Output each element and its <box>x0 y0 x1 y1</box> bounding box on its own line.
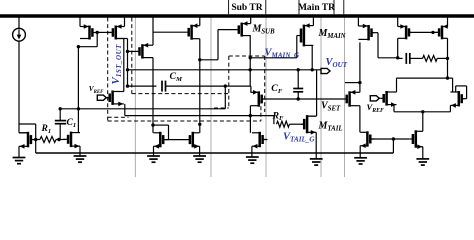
node M15-M16 gate tie junction <box>431 31 434 34</box>
node C1 bus riser junction <box>224 84 227 87</box>
wire (pair common source bus) <box>394 111 450 113</box>
node dashed box second-stage bottom edge <box>132 93 229 95</box>
wire (M18 source down) <box>449 105 451 111</box>
node V1ST_OUT tap 3 <box>126 84 129 87</box>
transistor M18 <box>450 91 463 108</box>
wire (MSUB drain leg down) <box>249 36 251 87</box>
wire (M15-M16 gate tie) <box>409 31 440 33</box>
capacitor C1 <box>55 121 66 124</box>
wire (M5 source bus to RF) <box>125 115 274 117</box>
wire (M1 drain lead) <box>19 132 28 134</box>
wire (P1 source from rail) <box>79 18 81 27</box>
node pair top junction <box>446 76 449 79</box>
transistor MTAIL <box>301 115 316 135</box>
node tail junction <box>421 110 424 113</box>
wire (C1 node bus) <box>60 86 225 109</box>
node M1 gate junction <box>34 138 37 141</box>
ground (M19 source) <box>416 159 429 165</box>
wire (CF bottom riser) <box>297 92 299 99</box>
wire (R1 to M2 gate) <box>56 139 65 141</box>
ground (M8 source) <box>147 156 160 162</box>
wire (M9 source down) <box>199 146 201 156</box>
wire (M1 gate to R1) <box>34 139 40 141</box>
node P1 P2 gate node <box>96 31 99 34</box>
node dashed box tail-bias left edge <box>228 56 230 108</box>
resistor R1 <box>40 137 56 143</box>
node dashed box first-stage left edge <box>107 18 109 122</box>
transistor P4 <box>137 43 154 59</box>
node M14 gate junction <box>392 137 395 140</box>
capacitor C4 (compensation) <box>406 53 410 64</box>
node dashed box tail-bias bottom stub <box>214 107 229 109</box>
svg-text:MMAIN: MMAIN <box>318 28 347 40</box>
wire (block separator line) <box>344 18 346 178</box>
capacitor CF <box>293 89 303 92</box>
transistor MMAIN <box>301 23 314 46</box>
wire (current source to M1 drain) <box>18 41 20 133</box>
wire (RF drop) <box>273 116 275 125</box>
node mirror left drain junction <box>151 123 154 126</box>
node RF left junction <box>249 114 252 117</box>
wire (M12 source stub left) <box>345 82 360 84</box>
wire (P3 gate line) <box>153 31 189 33</box>
wire (tail drain riser) <box>422 112 424 132</box>
wire (V1ST_OUT to VOUT bus) <box>128 69 322 71</box>
wire (MMAIN source from rail) <box>312 18 314 26</box>
transistor M13 <box>358 24 374 41</box>
wire (M2 drain riser to P1 drain) <box>77 47 79 133</box>
wire (M15 drain down) <box>397 38 399 58</box>
transistor M1 <box>19 132 36 149</box>
node dashed box tail-bias top edge <box>229 55 265 57</box>
transistor M15 <box>398 24 411 39</box>
node VREF input port right <box>370 96 379 101</box>
svg-text:VMAIN_G: VMAIN_G <box>265 48 300 60</box>
wire (P1-P2 gate tie) <box>97 31 113 33</box>
wire (M16 source from rail) <box>447 18 449 27</box>
resistor RF <box>277 121 290 127</box>
wire (M1 source down) <box>18 146 20 157</box>
wire (P2 drain to V1ST_OUT riser) <box>116 39 128 87</box>
ground (M1 source) <box>13 158 26 164</box>
wire (M11 source down) <box>251 146 253 157</box>
node dashed box tail-bias right edge <box>264 56 266 112</box>
wire (M17 drain riser) <box>396 78 398 92</box>
wire (P4 drain leg down) <box>152 58 154 133</box>
svg-text:Sub TR: Sub TR <box>231 3 262 13</box>
node C1 top junction <box>59 107 62 110</box>
transistor M10 <box>250 90 264 107</box>
node Main TR label box <box>299 0 344 14</box>
transistor M8 <box>154 132 169 149</box>
wire (P3 source from rail) <box>199 18 201 26</box>
wire (P1 diode connect) <box>78 32 97 46</box>
svg-text:VREF: VREF <box>367 102 384 114</box>
wire (M5 drain riser) <box>123 39 125 92</box>
svg-text:VTAIL_G: VTAIL_G <box>283 132 315 144</box>
capacitor CM <box>162 81 166 92</box>
wire (bias riser to bus) <box>35 140 37 154</box>
node Sub TR label box <box>229 0 266 14</box>
transistor M14 <box>360 131 374 148</box>
svg-text:Main TR: Main TR <box>298 3 335 13</box>
node M15 drain junction <box>396 56 399 59</box>
wire (MMAIN gate riser) <box>297 36 301 58</box>
svg-text:RF: RF <box>272 110 285 122</box>
wire (M10 drain down) <box>249 106 251 133</box>
wire (M10 gate / VSET bus) <box>261 98 346 100</box>
wire (M13 source from rail) <box>357 18 359 27</box>
transistor M12 <box>347 90 360 107</box>
svg-text:R1: R1 <box>41 124 52 135</box>
wire (M13 gate riser) <box>372 33 379 58</box>
node V1ST_OUT tap 1 <box>126 50 129 53</box>
node MSUB drain tap VMAIN_G <box>249 56 252 59</box>
wire (block separator line) <box>210 18 212 178</box>
node M12 source junction <box>358 81 361 84</box>
wire (M8 source down) <box>153 146 155 156</box>
node CF bottom junction <box>297 97 300 100</box>
node dashed box bottom edge y121 <box>108 120 261 122</box>
wire (VOUT to MTAIL drain) <box>307 70 317 116</box>
transistor P1 <box>80 24 97 39</box>
svg-text:VREF: VREF <box>89 85 104 95</box>
svg-text:MTAIL: MTAIL <box>318 121 343 133</box>
node M2 drain / C1 bus junction <box>77 107 80 110</box>
wire (C1 bottom riser) <box>59 124 61 140</box>
node dashed box second-stage left edge <box>131 18 133 94</box>
wire (M11 gate stub) <box>263 139 268 141</box>
node CF top junction <box>297 68 300 71</box>
transistor P2 <box>108 24 124 39</box>
resistor R3 (compensation) <box>423 55 438 61</box>
node M9 drain tap <box>198 123 201 126</box>
svg-text:VSET: VSET <box>321 101 341 113</box>
transistor M5 <box>108 91 124 107</box>
node R1 C1 junction <box>57 138 60 141</box>
ground (MTAIL source) <box>310 159 323 165</box>
wire (MTAIL source down) <box>315 132 317 159</box>
node P1 drain junction <box>77 45 80 48</box>
power rail VDD <box>0 14 474 18</box>
transistor M16 <box>436 24 448 39</box>
wire (mirror diode connect) <box>153 125 169 140</box>
wire (M15 diode tie) <box>378 57 398 59</box>
wire (long bottom bias bus) <box>36 152 394 154</box>
wire (M12 drain down) <box>359 106 361 133</box>
wire (cap to resistor) <box>410 57 423 59</box>
wire (M19 source down) <box>422 147 424 159</box>
node dashed box inner bottom edge y117 <box>108 116 129 118</box>
wire (VREF port to M5 gate) <box>106 97 109 99</box>
wire (M18 drain riser) <box>452 78 454 92</box>
transistor M2 <box>63 132 80 149</box>
wire (CM bus right) <box>166 85 251 87</box>
wire (RF to MTAIL gate) <box>290 123 305 125</box>
wire (M14 gate bus to M19 gate) <box>370 138 409 140</box>
node VOUT junction <box>311 68 314 71</box>
ground (M14 source) <box>354 158 367 164</box>
svg-text:CM: CM <box>170 71 184 83</box>
svg-text:MSUB: MSUB <box>252 24 276 36</box>
wire (mirror gate tie) <box>163 139 190 141</box>
node RC right junction <box>446 57 449 60</box>
node dashed box vtail right edge <box>260 100 262 121</box>
wire (M16 drain leg down) <box>447 38 449 78</box>
transistor M17 <box>381 91 397 107</box>
wire (M1 diode connect) <box>19 124 36 140</box>
wire (bias bus riser) <box>392 139 394 153</box>
wire (VMAIN_G line) <box>250 57 297 59</box>
wire (M17 source down) <box>393 105 395 112</box>
wire (M14 source down) <box>359 146 361 158</box>
wire (P2 source from rail) <box>124 18 126 27</box>
wire (C1 top riser) <box>59 109 61 121</box>
svg-text:CF: CF <box>271 83 283 95</box>
svg-text:V1ST_OUT: V1ST_OUT <box>110 44 123 85</box>
wire (CM bus left) <box>128 85 157 87</box>
node MSUB drain tap bus <box>249 68 252 71</box>
wire (P4 source from rail) <box>152 18 154 46</box>
wire (resistor to M16 drain leg) <box>437 57 447 59</box>
transistor MSUB <box>237 21 250 36</box>
current source I1 wire top <box>18 18 20 29</box>
node V1ST_OUT tap 2 <box>126 68 129 71</box>
node P3 drain tap <box>198 58 201 61</box>
transistor M11 <box>252 132 267 149</box>
transistor P3 <box>189 23 200 39</box>
ground (M2 source) <box>74 156 87 162</box>
wire (MMAIN drain down) <box>311 45 313 69</box>
wire (block separator line) <box>134 18 136 178</box>
transistor M9 <box>190 132 200 149</box>
wire (block separator line) <box>265 18 267 178</box>
wire (MSUB gate riser) <box>200 30 239 60</box>
wire (MSUB source from rail) <box>250 18 252 24</box>
wire (M15 source from rail) <box>397 18 399 27</box>
wire (comp cap lead) <box>398 57 403 59</box>
wire (pair top bus) <box>397 77 453 79</box>
svg-text:C1: C1 <box>67 118 77 129</box>
wire (M5 source down) <box>124 104 126 116</box>
ground (M11 source) <box>246 157 259 163</box>
wire (M12 source from M13 drain) <box>359 42 361 92</box>
ground (M9 source) <box>193 156 206 162</box>
wire (block separator line) <box>320 18 322 178</box>
wire (VREF port to M17 gate) <box>379 97 381 99</box>
node VREF input port left <box>97 95 106 100</box>
transistor M19 <box>410 130 423 149</box>
wire (CF top riser) <box>297 70 299 89</box>
wire (M18 diode loop) <box>456 86 467 99</box>
current source I1 <box>13 28 26 41</box>
wire (buffer source drop) <box>250 86 252 92</box>
node VOUT output port <box>321 68 330 73</box>
wire (V1ST_OUT to P4 gate) <box>128 50 140 52</box>
wire (P3 drain leg down) <box>199 39 201 133</box>
wire (M2 source down) <box>79 146 81 156</box>
